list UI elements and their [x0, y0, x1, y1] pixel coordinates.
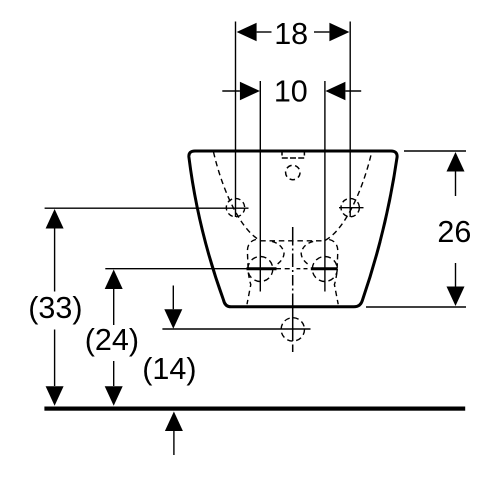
- svg-text:(24): (24): [85, 323, 139, 357]
- svg-text:(14): (14): [142, 352, 196, 386]
- svg-text:10: 10: [274, 75, 308, 109]
- svg-text:26: 26: [437, 215, 471, 249]
- svg-text:(33): (33): [28, 291, 82, 325]
- svg-text:18: 18: [274, 17, 308, 51]
